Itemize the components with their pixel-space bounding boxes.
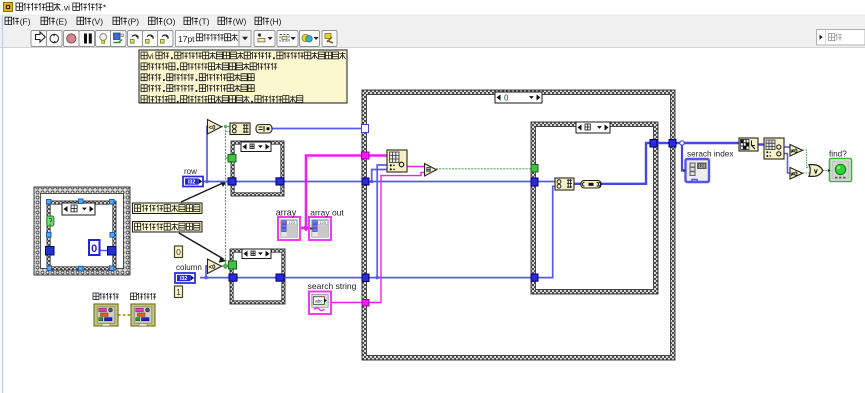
tunnel cyan bottom-left (while case) <box>47 266 52 271</box>
menu item (P) <box>113 17 127 24</box>
index array node 2 (row/col of min) <box>764 138 784 159</box>
annotation arrow to row case tunnel <box>181 181 228 202</box>
menu item (E) <box>41 17 55 24</box>
menu item (F) <box>5 17 19 24</box>
svg-text:search string: search string <box>308 281 357 291</box>
tunnel cyan top-mid (while case) <box>79 199 84 204</box>
svg-text:vi: vi <box>148 52 154 61</box>
title bar <box>0 0 865 15</box>
svg-text:(E): (E) <box>56 17 67 27</box>
error out cluster constant <box>131 304 155 326</box>
tunnel boolean (row case) <box>228 155 236 163</box>
tunnel string array (big case) <box>362 152 370 159</box>
tunnel cyan bottom-mid (while case) <box>79 266 84 271</box>
case selector 真 (inner case) <box>576 122 610 133</box>
numeric constant 1 <box>175 286 183 298</box>
case selector 0 (big case) <box>495 92 542 103</box>
toolbar clean-up button <box>322 31 337 47</box>
toolbar reorder dropdown <box>300 31 320 47</box>
tunnel boolean (column case) <box>229 261 237 269</box>
toolbar step button 2 <box>143 31 159 47</box>
tunnel column (inner case) <box>531 274 538 281</box>
wire boolean to row case selector tunnel <box>226 157 230 159</box>
comment text line 3 <box>141 74 161 81</box>
svg-text:<0: <0 <box>209 265 217 271</box>
toolbar step button 3 <box>158 31 174 47</box>
tunnel dark blue left (while case) <box>46 247 55 256</box>
diagram area left edge <box>2 15 4 393</box>
wire index2 to compare 1 <box>784 146 790 148</box>
wire column branch to Index Array <box>377 165 388 278</box>
svg-text:column: column <box>176 263 202 272</box>
case selector 真 (while-loop inner) <box>62 203 95 215</box>
comparison node >=0 #2 <box>790 168 803 180</box>
tunnel cyan right (while case) <box>110 233 115 238</box>
menu item (V) <box>77 17 91 24</box>
junction dot row wire <box>205 180 209 184</box>
toolbar pause button <box>79 31 95 47</box>
junction diamond boolean column <box>222 263 229 270</box>
svg-text:(P): (P) <box>128 17 140 27</box>
inner case structure (TRUE case) <box>531 122 658 294</box>
comparison node <0 (row) <box>208 120 222 135</box>
tunnel selector boolean (inner case) <box>531 165 538 173</box>
wire compare1 to OR <box>803 150 810 168</box>
toolbar align dropdown <box>254 31 275 47</box>
junction circle array wire <box>680 141 684 145</box>
wire 2D string array to Index Array <box>367 154 388 157</box>
pill node (inner case) <box>581 181 601 189</box>
wire search string to equal? <box>367 172 425 302</box>
svg-text:0: 0 <box>176 247 181 257</box>
yellow comment box <box>139 50 347 103</box>
menu item (H) <box>255 17 269 24</box>
svg-text:I32: I32 <box>188 180 196 186</box>
wire boolean to select node lower input <box>226 131 231 133</box>
svg-text:array out: array out <box>310 208 344 218</box>
comparison node <0 (column) <box>208 259 222 274</box>
junction diamond string array <box>303 225 310 232</box>
while loop frame <box>34 187 130 275</box>
wire to big case top tunnel <box>272 128 362 130</box>
junction dot boolean <box>224 125 227 128</box>
tunnel column (big case) <box>362 274 369 282</box>
menu item (W) <box>218 17 232 24</box>
toolbar abort button <box>64 31 80 47</box>
wire compare2 to OR <box>803 172 810 174</box>
select node (inner case) <box>555 178 574 190</box>
comment text line 2 <box>141 63 175 70</box>
wire inner node A to node B <box>574 183 581 185</box>
array out indicator (2D string) <box>309 217 331 240</box>
wire array to array out <box>300 227 310 230</box>
tunnel col-out (column case) <box>276 274 284 281</box>
wire row branch to Index Array <box>372 170 388 182</box>
svg-text:≠0: ≠0 <box>791 171 799 178</box>
tunnel cyan top-right (while case) <box>110 200 115 205</box>
svg-text:<0: <0 <box>209 125 217 131</box>
pill node (empty array?) <box>256 125 272 134</box>
junction dot row branch <box>370 180 374 184</box>
wire column to <0 comparison <box>206 266 209 278</box>
comment text line 4 <box>141 85 161 92</box>
case structure row (FALSE case) <box>231 141 284 196</box>
transpose 2D array node <box>739 138 758 151</box>
toolbar retain-values button <box>111 31 127 47</box>
OR node <box>809 165 823 177</box>
tunnel top (big case left border) <box>362 125 369 133</box>
wire branch to serach index indicator <box>682 144 686 171</box>
array control (2D string) <box>278 217 300 240</box>
svg-text:I32: I32 <box>180 276 188 282</box>
case structure (while-loop inner, TRUE case) <box>47 201 116 270</box>
svg-text:≠0: ≠0 <box>791 148 799 155</box>
select node (row/col mode) <box>230 123 250 135</box>
wire transpose to index array 2 <box>758 143 764 145</box>
wire column inside inner case <box>537 186 556 277</box>
numeric control terminal row (I32) <box>183 177 203 187</box>
tunnel cyan left (while case) <box>47 233 52 238</box>
app icon <box>4 3 13 12</box>
toolbar search box <box>817 30 865 46</box>
wire row (I32) to big case <box>203 181 538 183</box>
numeric control terminal column (I32) <box>175 273 195 283</box>
svg-text:123: 123 <box>320 221 326 225</box>
menu bar <box>0 15 865 30</box>
wire OR to find? indicator <box>823 170 830 172</box>
tunnel row-in (row case) <box>228 178 236 185</box>
toolbar step button 1 <box>128 31 144 47</box>
svg-text:123: 123 <box>289 221 295 225</box>
tunnel cyan bottom-right (while case) <box>110 266 115 271</box>
wire equal? result to inner case selector <box>436 168 532 170</box>
boolean tunnel (while case left border) <box>47 216 54 226</box>
svg-text:row: row <box>184 167 197 176</box>
svg-text:array: array <box>276 208 297 218</box>
tunnel row (inner case) <box>531 178 538 186</box>
serach index array indicator <box>683 159 709 182</box>
tunnel row (big case) <box>362 178 369 185</box>
tunnel array out (inner case) <box>650 140 657 148</box>
tunnel array out (big case right border) <box>669 140 676 148</box>
svg-text:(O): (O) <box>163 17 175 27</box>
svg-text:(H): (H) <box>270 17 282 27</box>
wire search index array out of inner case <box>601 143 670 184</box>
svg-text:0: 0 <box>504 93 509 102</box>
toolbar distribute dropdown <box>277 31 298 47</box>
wire column<0 boolean <box>221 265 229 267</box>
equal? comparison node <box>425 164 437 177</box>
wire column (I32) to big case <box>200 277 538 279</box>
label box 为真时对应左面内容 #1 <box>133 203 203 214</box>
toolbar highlight-execution button <box>96 31 112 47</box>
wire row inside inner case <box>537 181 556 183</box>
wire 0 constant to while tunnel <box>99 250 108 252</box>
toolbar font combo dropdown <box>239 31 251 47</box>
tunnel search string (big case) <box>362 300 369 307</box>
wire boolean vertical <box>225 127 227 267</box>
label box 为真时对应左面内容 #2 <box>133 222 203 233</box>
search string control <box>309 292 331 315</box>
svg-text:∨: ∨ <box>813 169 818 176</box>
wire index2 to compare 2 <box>784 154 790 174</box>
wire array to transpose node <box>676 142 739 145</box>
index array node (2D) <box>387 150 407 172</box>
svg-text:123: 123 <box>698 164 706 169</box>
error in cluster constant <box>94 304 118 326</box>
wire indexed string to equal? <box>407 166 425 168</box>
wire row to <0 comparison <box>207 127 210 182</box>
comparison node >=0 #1 <box>790 145 803 157</box>
label 错误输入 <box>93 293 119 300</box>
junction dot column branch <box>375 276 379 280</box>
wire search string to big case <box>331 302 363 304</box>
svg-text:0: 0 <box>91 243 97 255</box>
svg-text:(V): (V) <box>92 17 104 27</box>
menu item (T) <box>184 17 198 24</box>
big case structure (case 0) <box>362 90 675 360</box>
svg-text:(F): (F) <box>20 17 31 27</box>
numeric constant 0 <box>175 246 183 258</box>
svg-text:find?: find? <box>829 149 847 158</box>
svg-text:1: 1 <box>176 287 181 297</box>
menu item (O) <box>149 17 163 24</box>
tunnel cyan top-left (while case) <box>47 200 52 205</box>
tunnel dark blue right (while case) <box>108 247 117 256</box>
tunnel row-out (row case) <box>276 178 284 185</box>
comment text line 5 <box>141 96 175 103</box>
find? boolean indicator <box>828 159 852 182</box>
svg-text:(W): (W) <box>233 17 247 27</box>
window title text <box>16 3 60 11</box>
case structure column (FALSE case) <box>230 249 285 304</box>
label 错误输出 <box>131 293 157 300</box>
tunnel col-in (column case) <box>229 274 237 281</box>
toolbar font combo <box>176 31 240 47</box>
comment text line 1 <box>141 52 147 59</box>
svg-text:abc: abc <box>315 299 323 304</box>
svg-text:17pt: 17pt <box>178 34 195 44</box>
svg-text:.vi: .vi <box>61 3 70 13</box>
wire row<0 boolean <box>221 126 230 128</box>
annotation arrow to column case tunnel <box>179 233 227 263</box>
junction dot column wire <box>204 276 208 280</box>
error wire (dashed) <box>118 314 131 316</box>
case selector 假 (row case) <box>241 142 271 152</box>
svg-text:(T): (T) <box>199 17 210 27</box>
numeric constant 0 (while loop) <box>89 240 100 255</box>
svg-text:serach index: serach index <box>687 150 733 159</box>
case selector 假 (column case) <box>242 249 271 259</box>
wire 2D string array to big case <box>306 156 362 229</box>
toolbar run-continuous button <box>47 31 63 47</box>
toolbar background <box>0 30 865 48</box>
toolbar run button <box>31 31 47 47</box>
